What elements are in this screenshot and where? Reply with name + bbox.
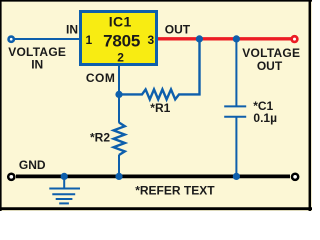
svg-text:*R2: *R2 <box>90 131 110 145</box>
svg-text:GND: GND <box>19 158 46 172</box>
svg-text:3: 3 <box>147 33 154 47</box>
svg-text:IN: IN <box>66 22 78 36</box>
svg-text:OUT: OUT <box>165 22 191 36</box>
svg-text:IC1: IC1 <box>109 14 132 30</box>
svg-text:1: 1 <box>86 33 93 47</box>
svg-text:COM: COM <box>86 71 116 85</box>
svg-text:IN: IN <box>31 57 43 71</box>
svg-text:7805: 7805 <box>103 32 140 51</box>
svg-text:2: 2 <box>117 50 124 64</box>
svg-text:0.1µ: 0.1µ <box>253 111 277 125</box>
svg-text:OUT: OUT <box>257 59 283 73</box>
svg-text:*R1: *R1 <box>150 101 170 115</box>
svg-text:*REFER TEXT: *REFER TEXT <box>135 183 215 197</box>
